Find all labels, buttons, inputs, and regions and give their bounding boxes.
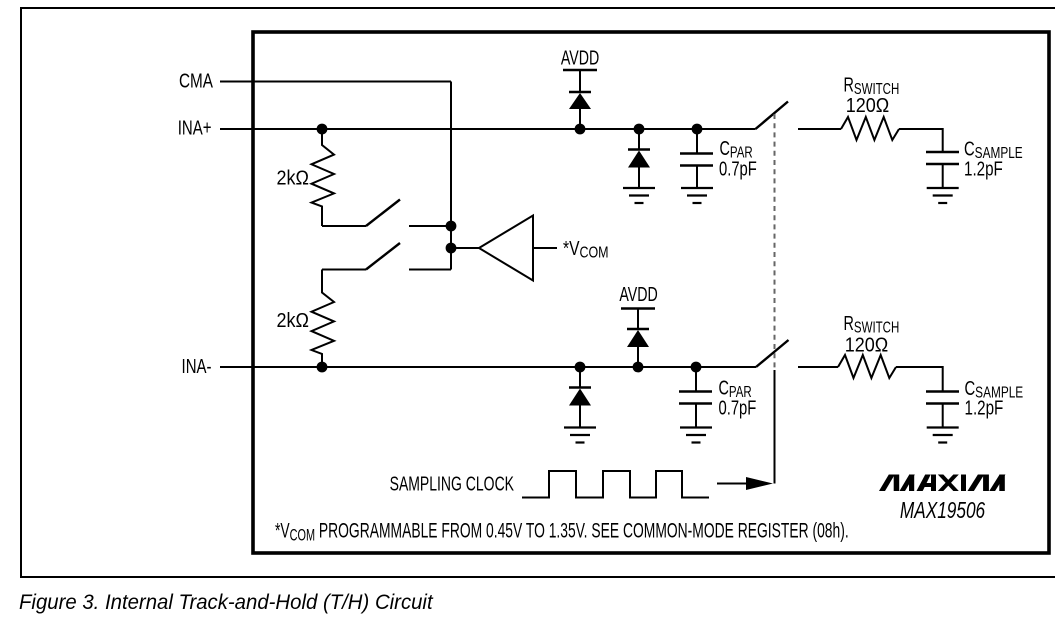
svg-text:120Ω: 120Ω	[845, 335, 888, 357]
diode D3 (INA- to AVDD)	[627, 309, 649, 368]
junction INA+/D2	[634, 124, 645, 135]
power AVDD (bottom)	[619, 283, 657, 309]
svg-text:CMA: CMA	[179, 70, 213, 92]
clock waveform	[522, 471, 709, 498]
switch S3 (track/hold INA+)	[756, 102, 789, 130]
wire RSWITCH2 to CSAMPLE2	[896, 367, 943, 391]
junction INA-/D4	[575, 362, 586, 373]
capacitor CSAMPLE (bottom)	[926, 392, 959, 428]
ground (CPAR top)	[681, 188, 713, 203]
svg-text:0.7pF: 0.7pF	[719, 396, 757, 419]
resistor RSWITCH (top)	[841, 117, 899, 140]
diode D2 (gnd to INA+)	[628, 129, 650, 188]
svg-text:0.7pF: 0.7pF	[719, 157, 757, 180]
svg-text:Figure 3. Internal Track-and-H: Figure 3. Internal Track-and-Hold (T/H) …	[19, 591, 434, 614]
resistor R-bottom 2kOhm	[312, 270, 335, 368]
svg-text:MAX19506: MAX19506	[900, 499, 986, 524]
resistor RSWITCH (bottom)	[838, 355, 896, 378]
IC boundary box	[253, 32, 1049, 553]
wire CMA horizontal	[220, 81, 451, 83]
capacitor CSAMPLE (top)	[926, 152, 959, 188]
junction INA+/D1	[575, 124, 586, 135]
svg-text:AVDD: AVDD	[561, 46, 599, 69]
capacitor CPAR (top)	[680, 129, 713, 188]
ground (CSAMPLE bottom)	[927, 428, 959, 443]
clock net solid	[774, 370, 776, 484]
ground (CSAMPLE top)	[927, 188, 959, 203]
ground (CPAR bottom)	[680, 428, 712, 443]
wire RSWITCH to CSAMPLE	[899, 129, 943, 152]
junction INA+/CPAR	[692, 124, 703, 135]
svg-text:*VCOM PROGRAMMABLE FROM 0.45V: *VCOM PROGRAMMABLE FROM 0.45V TO 1.35V. …	[275, 519, 849, 544]
svg-text:2kΩ: 2kΩ	[277, 168, 309, 190]
junction switch common A	[446, 221, 457, 232]
resistor R-top 2kOhm	[312, 129, 335, 226]
ground (D2)	[623, 188, 655, 203]
junction INA-/CPAR	[691, 362, 702, 373]
switch S2 (bottom cal switch)	[322, 243, 451, 270]
diode D4 (gnd to INA-)	[569, 367, 591, 427]
op-amp buffer U1 (VCOM driver)	[451, 216, 557, 281]
wire S4 to RSWITCH2	[798, 366, 838, 368]
svg-text:RSWITCH: RSWITCH	[844, 73, 900, 97]
ground (D4)	[564, 428, 596, 443]
junction INA-/D3	[633, 362, 644, 373]
junction switch common B	[446, 243, 457, 254]
svg-text:RSWITCH: RSWITCH	[844, 312, 900, 336]
wire INA+ rail	[220, 128, 756, 130]
svg-text:1.2pF: 1.2pF	[965, 396, 1004, 419]
switch S4 (track/hold INA-)	[756, 340, 789, 367]
svg-text:SAMPLING CLOCK: SAMPLING CLOCK	[390, 472, 515, 495]
diode D1 (INA+ to AVDD)	[569, 70, 591, 129]
svg-text:120Ω: 120Ω	[846, 95, 889, 117]
junction INA-/R-bottom	[317, 362, 328, 373]
MAXIM logo	[879, 475, 1005, 492]
svg-text:INA-: INA-	[182, 355, 212, 378]
junction INA+/R-top	[317, 124, 328, 135]
svg-text:2kΩ: 2kΩ	[277, 310, 309, 332]
clock arrow	[717, 477, 773, 490]
power AVDD (top)	[561, 46, 599, 70]
svg-text:AVDD: AVDD	[619, 283, 657, 306]
wire CMA vertical to switch common	[450, 82, 452, 270]
capacitor CPAR (bottom)	[679, 367, 712, 427]
switch S1 (top cal switch)	[322, 200, 451, 227]
wire S3 to RSWITCH	[798, 128, 841, 130]
wire INA- rail	[220, 366, 756, 368]
clock net dashed	[774, 114, 776, 368]
svg-text:INA+: INA+	[178, 116, 212, 139]
svg-text:*VCOM: *VCOM	[563, 237, 609, 262]
svg-text:1.2pF: 1.2pF	[964, 157, 1003, 180]
